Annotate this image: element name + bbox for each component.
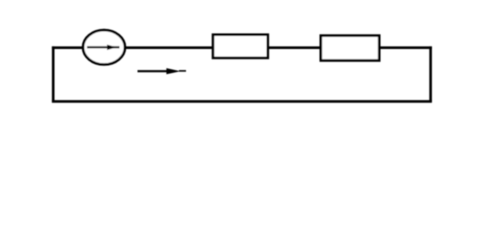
resistor R1 [213, 35, 268, 58]
wire top: source to R1 [125, 46, 213, 49]
wire right vertical [429, 46, 432, 101]
wire left vertical [52, 46, 55, 101]
wire top: left corner to source [52, 46, 83, 49]
wire top: R2 to right corner [380, 46, 432, 49]
resistor R2 [321, 36, 379, 61]
wire top: R1 to R2 [268, 46, 321, 49]
wire bottom horizontal [52, 100, 432, 103]
current source circle [83, 30, 125, 64]
current source arrow [87, 45, 120, 50]
current direction arrow [138, 68, 187, 74]
